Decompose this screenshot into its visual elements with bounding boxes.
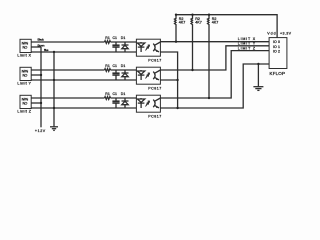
svg-text:C1: C1 [113, 36, 118, 40]
svg-text:R1: R1 [105, 92, 110, 96]
svg-text:D1: D1 [121, 36, 126, 40]
svg-text:PC817: PC817 [148, 86, 161, 90]
svg-text:IO 1: IO 1 [273, 45, 280, 49]
svg-text:NO: NO [23, 46, 28, 50]
svg-text:Blue: Blue [44, 48, 49, 52]
svg-text:LIMIT Z: LIMIT Z [238, 47, 256, 51]
svg-text:4K7: 4K7 [195, 21, 202, 25]
svg-text:D1: D1 [121, 92, 126, 96]
svg-text:R1: R1 [105, 36, 110, 40]
svg-text:PC817: PC817 [148, 114, 161, 118]
svg-text:NO: NO [23, 74, 28, 78]
svg-text:Vdd: Vdd [267, 32, 275, 36]
svg-text:Brown: Brown [38, 44, 45, 48]
svg-text:Limit Y: Limit Y [17, 81, 31, 85]
svg-text:Black: Black [38, 38, 45, 42]
svg-text:D1: D1 [121, 64, 126, 68]
svg-text:C1: C1 [113, 64, 118, 68]
svg-text:IO 0: IO 0 [273, 40, 280, 44]
svg-text:+3.3V: +3.3V [280, 32, 292, 36]
svg-text:NO: NO [23, 102, 28, 106]
svg-text:Limit Z: Limit Z [17, 109, 31, 113]
svg-text:+12V: +12V [35, 129, 46, 133]
svg-text:LIMIT X: LIMIT X [238, 37, 256, 41]
svg-text:LIMIT Y: LIMIT Y [238, 42, 256, 46]
svg-text:Limit X: Limit X [17, 53, 31, 57]
svg-text:C1: C1 [113, 92, 118, 96]
svg-text:PC817: PC817 [148, 58, 161, 62]
svg-text:R1: R1 [105, 64, 110, 68]
svg-text:KFLOP: KFLOP [270, 71, 286, 76]
svg-text:4K7: 4K7 [179, 21, 186, 25]
svg-text:4K7: 4K7 [212, 21, 219, 25]
svg-text:IO 2: IO 2 [273, 50, 280, 54]
